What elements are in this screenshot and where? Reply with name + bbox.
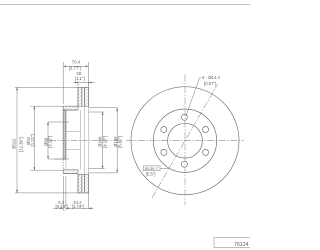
dim 44.2 arrows <box>66 207 69 209</box>
bolt hole lower-left <box>161 149 167 155</box>
bolt circle boxed label <box>143 166 160 171</box>
disc inboard face line <box>88 87 90 107</box>
dim 70.4 extension lines <box>62 62 64 104</box>
svg-text:[4.17"]: [4.17"] <box>102 136 107 148</box>
dim 28 extension lines <box>77 81 79 86</box>
dim 44.2 line <box>66 207 94 209</box>
vent channel inner lines top <box>81 87 83 106</box>
dim O312 extension lines <box>15 86 78 88</box>
leader line for bolt hole label <box>186 78 200 116</box>
disc outboard plate (bottom) hatched <box>78 174 82 193</box>
section view centerline <box>50 139 123 141</box>
svg-text:[12.36"]: [12.36"] <box>18 137 23 152</box>
dim O80 arrows <box>47 122 49 125</box>
bolt hole bottom <box>181 161 187 167</box>
dim O149 line <box>116 108 118 173</box>
hub recess edge lines <box>66 131 81 133</box>
dim O106 line <box>102 112 104 169</box>
bolt hole top <box>181 114 187 120</box>
dim 28 text <box>75 71 85 81</box>
vent channel inner lines bottom <box>81 174 83 193</box>
bolt hole upper-right <box>203 127 209 133</box>
dim O106 arrows <box>102 112 104 115</box>
dim O149 bent extension top <box>89 108 118 114</box>
dim O31 arrows <box>34 106 36 109</box>
dim O106 text <box>98 136 108 148</box>
dim O149 text <box>113 136 123 148</box>
dim O312 arrows <box>16 87 18 90</box>
bottom dim extension lines <box>62 176 64 211</box>
bolt hole lower-right <box>203 149 209 155</box>
dim O149 bent extension bottom <box>89 166 118 173</box>
dim 6.2 text <box>55 200 67 209</box>
svg-text:[5.87"]: [5.87"] <box>117 136 122 148</box>
hat wall band top hatched <box>63 106 78 110</box>
top page border line <box>0 4 250 6</box>
dim O31 hat extension lines <box>30 105 63 107</box>
hat circle <box>153 109 216 172</box>
svg-text:[1.21"]: [1.21"] <box>30 134 35 146</box>
bolt circle diagonal centerline <box>152 84 218 198</box>
svg-text:[1.1"]: [1.1"] <box>75 76 85 81</box>
bolt hole upper-left <box>161 127 167 133</box>
dim O312 text <box>12 137 24 152</box>
flange face lines <box>62 106 64 159</box>
disc top edge <box>78 86 89 88</box>
pilot hole circle <box>168 123 203 158</box>
title block box <box>214 238 252 248</box>
hat interior edge lines <box>80 110 82 170</box>
dim O80 text <box>43 136 52 148</box>
dim 70.4 arrows <box>63 65 66 67</box>
dim O106 extension lines <box>89 111 105 113</box>
dim 6.2 arrow <box>60 207 63 209</box>
mounting flange strip hatched <box>63 110 66 159</box>
hat band top outline <box>63 105 78 107</box>
dim 44.2 text <box>72 200 84 209</box>
dim O80 extension lines <box>48 121 69 123</box>
hat band bottom outline <box>63 169 78 171</box>
bolt hole label <box>202 75 221 86</box>
disc bottom edge <box>78 192 89 194</box>
stud hole edge line <box>55 158 64 160</box>
svg-text:76124: 76124 <box>234 242 249 248</box>
disc inboard plate (bottom) hatched <box>85 174 89 193</box>
svg-text:Ø312: Ø312 <box>12 138 17 149</box>
svg-text:[3.15"]: [3.15"] <box>48 136 53 148</box>
disc outboard face line <box>77 87 79 106</box>
dim O149 arrows <box>116 108 118 111</box>
disc inboard plate (top) hatched <box>85 87 89 106</box>
dim 28 arrows <box>75 82 78 84</box>
svg-text:4 - Ø14.4: 4 - Ø14.4 <box>202 75 221 80</box>
svg-text:Ø139.7: Ø139.7 <box>145 166 159 171</box>
disc outboard plate (top) hatched <box>78 87 82 106</box>
svg-text:[5.5"]: [5.5"] <box>146 172 156 177</box>
svg-text:[1.74"]: [1.74"] <box>72 204 84 209</box>
front view vertical centerline <box>184 75 186 206</box>
hat wall band bottom hatched <box>63 170 78 174</box>
leader from box to diagonal <box>160 167 169 169</box>
dim O312 line <box>16 87 18 193</box>
svg-text:[2.77"]: [2.77"] <box>69 65 81 70</box>
svg-text:[0.57"]: [0.57"] <box>204 81 216 86</box>
dim 6.2 line <box>53 207 63 209</box>
outer circle <box>131 87 239 195</box>
dim O31 hat line <box>33 106 35 170</box>
dim O80 line <box>47 122 49 159</box>
dim 70.4 line <box>63 65 88 67</box>
dim O31 text <box>26 134 35 146</box>
dim 70.4 text <box>69 60 81 71</box>
front view horizontal centerline <box>127 140 245 142</box>
dim 28 line <box>74 82 96 84</box>
svg-text:70.4: 70.4 <box>72 60 81 65</box>
svg-text:[0.24"]: [0.24"] <box>55 204 67 209</box>
